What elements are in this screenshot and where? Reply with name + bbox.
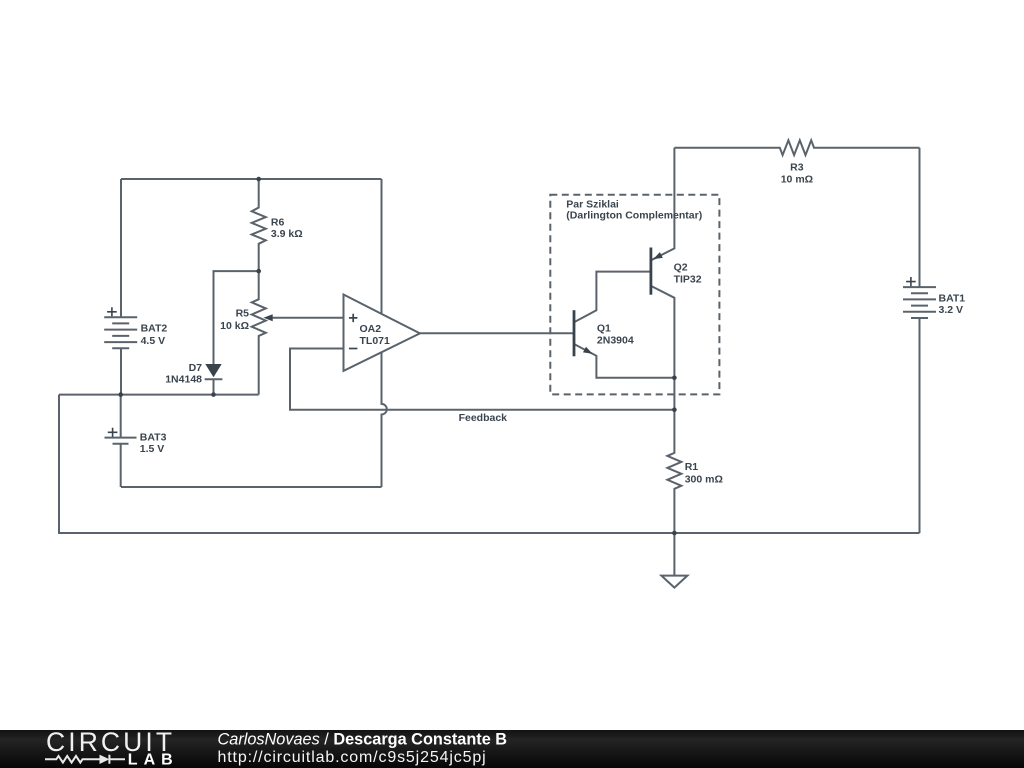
- diode D7 triangle: [205, 364, 221, 377]
- svg-text:3.9 kΩ: 3.9 kΩ: [271, 228, 303, 240]
- svg-text:10 mΩ: 10 mΩ: [781, 173, 813, 185]
- node dot Q1 emitter / Q2 collector: [672, 376, 677, 381]
- resistor R6: [252, 179, 266, 271]
- wiper arrowhead R5: [264, 314, 273, 321]
- svg-text:Q1: Q1: [597, 323, 611, 335]
- battery BAT2 plus sign: [107, 307, 117, 316]
- node dot feedback junction: [672, 407, 677, 412]
- svg-text:TL071: TL071: [360, 335, 391, 347]
- svg-text:LAB: LAB: [128, 752, 179, 768]
- op-amp plus symbol: [349, 314, 357, 322]
- node dot D7 junction: [211, 392, 216, 397]
- battery BAT2 plates: [104, 317, 137, 348]
- transistor Q2 collector path: [651, 286, 675, 378]
- wire top loop: [121, 178, 382, 180]
- svg-text:http://circuitlab.com/c9s5j254: http://circuitlab.com/c9s5j254jc5pj: [218, 749, 487, 766]
- diode D7 cathode bar: [205, 378, 223, 380]
- battery BAT1 plates: [903, 287, 936, 318]
- wire BAT2 bottom to node: [120, 348, 122, 394]
- wire left side to BAT2: [120, 179, 122, 317]
- wire outer left and bottom rail: [59, 395, 920, 533]
- svg-text:Feedback: Feedback: [459, 412, 508, 424]
- resistor R1: [667, 410, 681, 533]
- svg-text:4.5 V: 4.5 V: [141, 335, 166, 347]
- svg-text:OA2: OA2: [360, 323, 382, 335]
- dashed box Par Sziklai: [550, 195, 719, 395]
- battery BAT3 plus sign: [108, 428, 118, 437]
- footer logo resistor-diode glyph: [45, 755, 125, 764]
- wire bottom of loop: [121, 486, 382, 488]
- battery BAT1 plus sign: [906, 277, 916, 286]
- svg-text:(Darlington Complementar): (Darlington Complementar): [566, 210, 702, 222]
- wire op-amp output to Q1 base: [420, 332, 574, 334]
- svg-text:3.2 V: 3.2 V: [939, 304, 964, 316]
- wire Q2 collector node to R1: [673, 378, 675, 410]
- op-amp minus symbol: [349, 348, 357, 350]
- svg-text:D7: D7: [189, 362, 203, 374]
- svg-text:1N4148: 1N4148: [165, 374, 202, 386]
- transistor Q1 emitter arrowhead: [583, 347, 593, 354]
- resistor R5 (pot): [252, 271, 266, 395]
- svg-text:BAT2: BAT2: [141, 323, 168, 335]
- svg-text:CarlosNovaes / Descarga Consta: CarlosNovaes / Descarga Constante B: [218, 731, 508, 749]
- svg-text:TIP32: TIP32: [674, 273, 702, 285]
- node dot R6/R5 junction: [256, 269, 261, 274]
- node dot ground rail junction: [672, 531, 677, 536]
- resistor R3: [674, 140, 919, 155]
- svg-text:R1: R1: [685, 461, 699, 473]
- wire branch node to D7: [214, 271, 259, 364]
- footer bar: [0, 730, 1024, 768]
- ground symbol: [661, 576, 687, 588]
- wire R5 wiper to op-amp + input: [270, 317, 344, 319]
- svg-text:2N3904: 2N3904: [597, 334, 634, 346]
- wire mid horizontal rail: [59, 394, 259, 396]
- svg-text:BAT3: BAT3: [140, 432, 167, 444]
- svg-text:300 mΩ: 300 mΩ: [685, 474, 723, 486]
- transistor Q2 emitter arrowhead: [653, 252, 663, 259]
- transistor Q1 emitter path: [574, 344, 674, 378]
- svg-text:Q2: Q2: [674, 261, 688, 273]
- battery BAT1 leads: [919, 148, 921, 533]
- op-amp OA2 body: [344, 295, 420, 371]
- svg-text:R3: R3: [790, 162, 804, 174]
- svg-text:R5: R5: [236, 307, 250, 319]
- svg-text:1.5 V: 1.5 V: [140, 443, 165, 455]
- wire op-amp - input feedback: [290, 349, 674, 410]
- transistor Q2 base bar: [650, 248, 653, 295]
- transistor Q1 collector path: [574, 272, 651, 323]
- battery BAT3 plates: [105, 438, 137, 444]
- wire right side of loop with hop: [382, 179, 387, 487]
- svg-text:BAT1: BAT1: [939, 293, 966, 305]
- wire R1 to ground: [673, 533, 675, 576]
- node dot BAT2/BAT3 junction: [118, 392, 123, 397]
- svg-text:R6: R6: [271, 216, 285, 228]
- node dot top R6: [256, 177, 261, 182]
- transistor Q1 base bar: [573, 310, 576, 356]
- transistor Q2 emitter path: [651, 148, 675, 261]
- battery BAT3 leads: [120, 395, 122, 487]
- svg-text:10 kΩ: 10 kΩ: [220, 320, 249, 332]
- diode D7 lead: [213, 379, 215, 394]
